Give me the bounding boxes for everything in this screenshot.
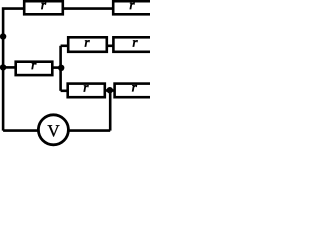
resistor r (upper branch right, cut by edge) [113, 37, 152, 52]
wire: upper branch between resistors [107, 44, 114, 47]
node dot at lower branch midpoint [107, 87, 113, 93]
label r (upper branch right) [133, 40, 138, 46]
resistor r (left middle) [16, 62, 53, 75]
node dot at branch split [58, 65, 64, 71]
label V (voltmeter) [48, 125, 60, 136]
label r (top left) [41, 3, 46, 9]
resistor r (lower branch left) [68, 84, 105, 98]
voltmeter V circle [38, 115, 68, 145]
wire: branch stub vertical [59, 46, 62, 91]
resistor r (upper branch left) [68, 37, 107, 52]
wire: top rail between resistors [63, 7, 113, 10]
resistor r (lower branch right, cut by edge) [115, 84, 153, 98]
wire: left-middle resistor to branch node [52, 66, 60, 69]
resistor r (top left) [24, 1, 63, 14]
label r (left middle) [32, 63, 37, 69]
label r (upper branch left) [85, 40, 90, 46]
node dot on left rail (upper) [0, 33, 6, 39]
wire: stub to lower branch [61, 90, 68, 93]
label r (lower branch left) [84, 85, 89, 91]
wire: drop from lower-branch midpoint [109, 90, 112, 130]
wire: stub to upper branch [61, 44, 69, 47]
label r (top right) [130, 3, 135, 9]
wire: top rail and left rail [3, 9, 24, 131]
wire: lower branch between resistors [105, 89, 115, 92]
label r (lower branch right) [132, 85, 137, 91]
resistor r (top right, cut by edge) [113, 1, 152, 14]
node dot on left rail at middle resistor [0, 64, 6, 70]
wire: left rail to left-middle resistor [3, 66, 16, 69]
wire: bottom rail [3, 129, 110, 132]
